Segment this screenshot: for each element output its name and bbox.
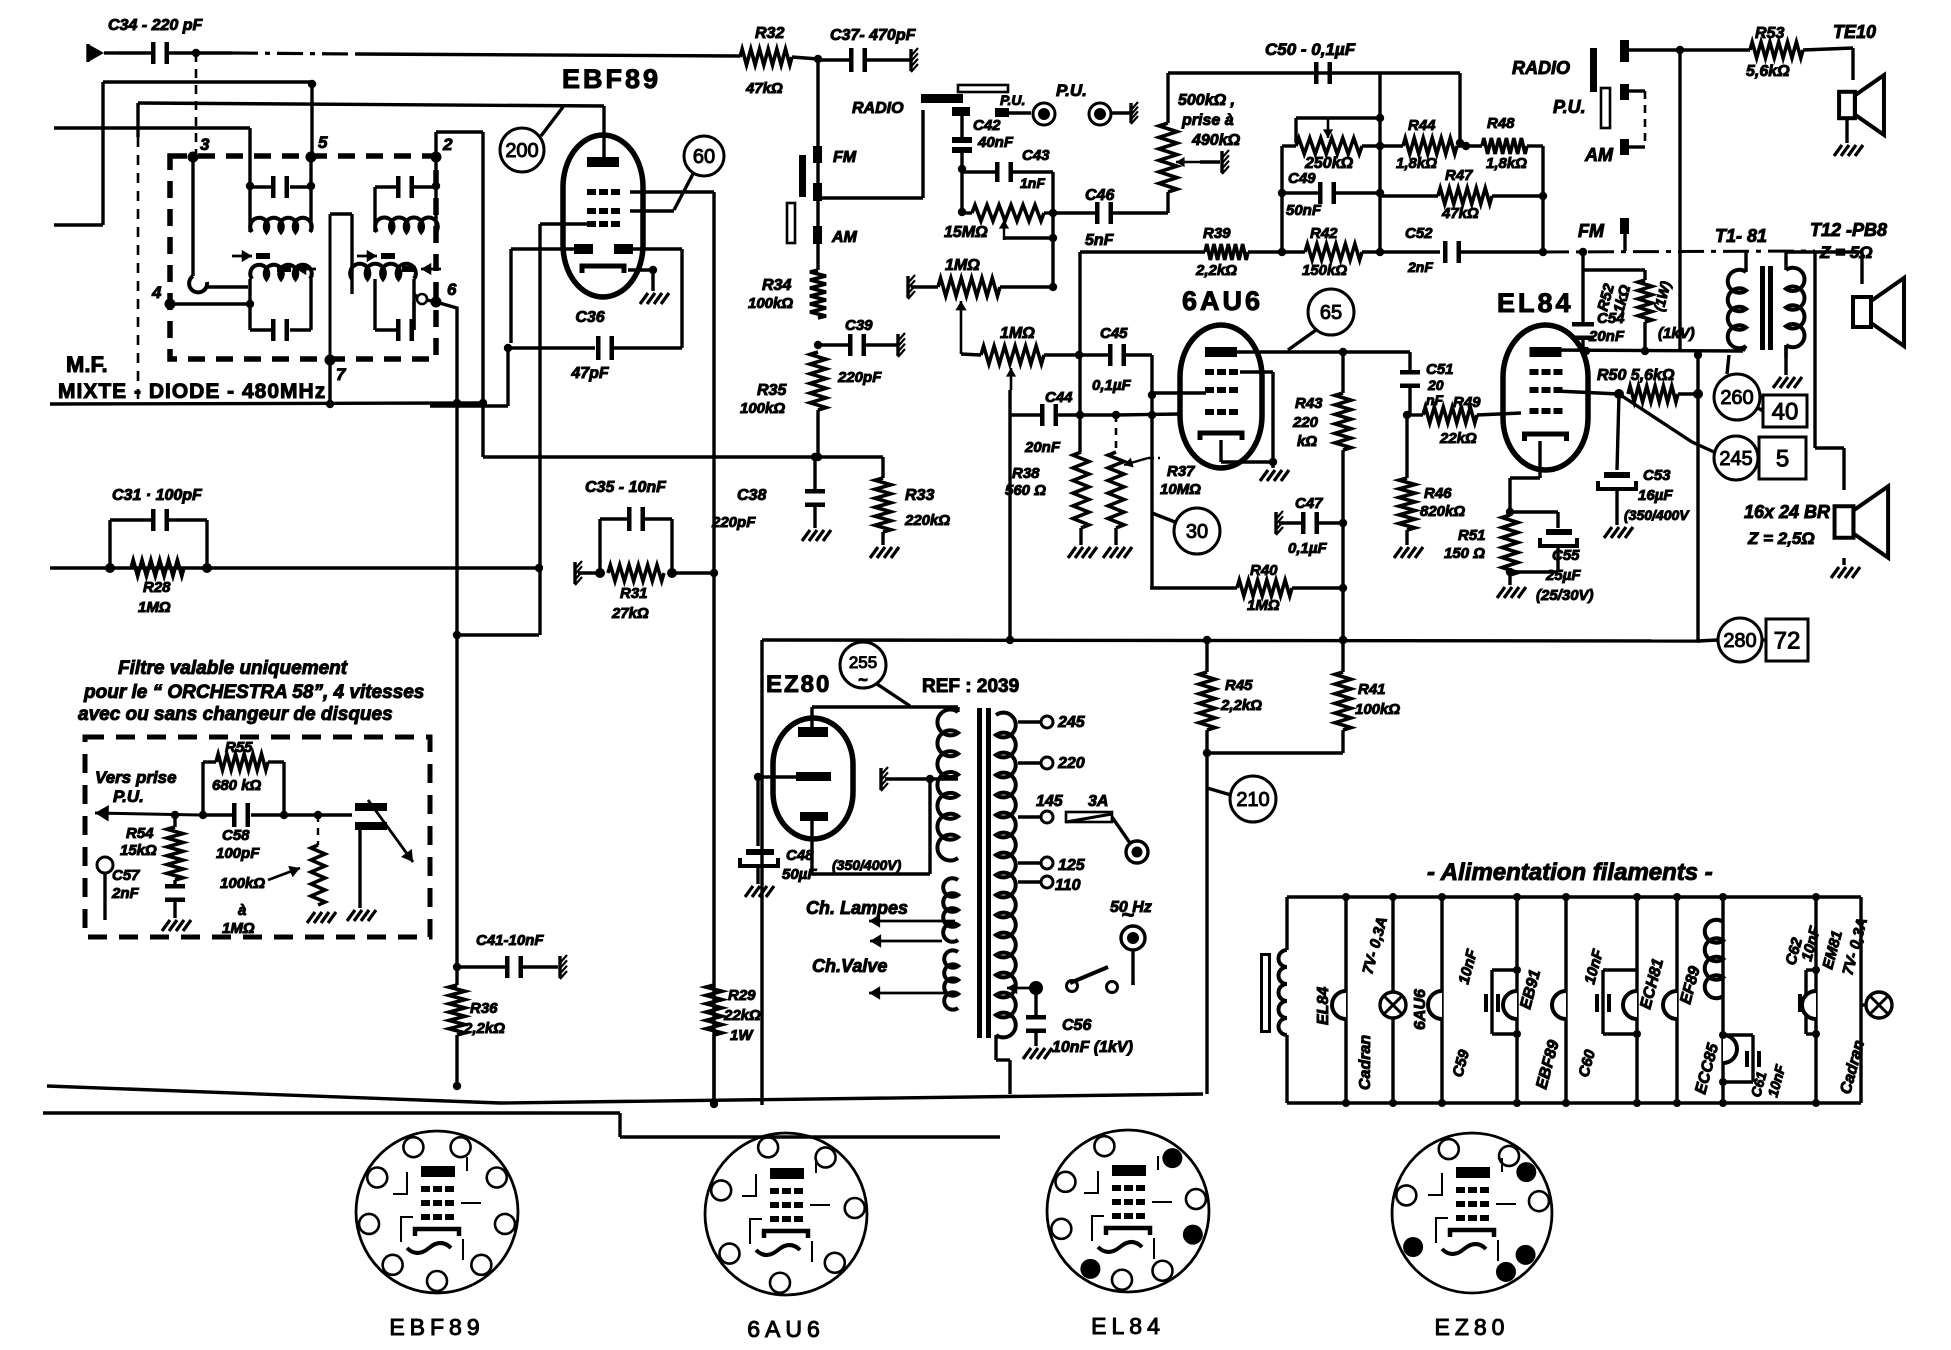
bus chassis: [47, 1086, 1203, 1103]
capacitor C37: [818, 48, 910, 72]
svg-text:EZ80: EZ80: [1435, 1314, 1510, 1340]
label P.U. 2: [1056, 81, 1087, 100]
resistor R46: [1399, 411, 1415, 545]
capacitor C43: [962, 162, 1053, 213]
label EZ80: [766, 671, 831, 698]
resistor R45: [1199, 640, 1262, 730]
capacitor C38: [805, 453, 825, 528]
label 100kΩ à 1MΩ: [220, 866, 300, 937]
filament line ECH81: [1623, 893, 1641, 1107]
pot 500k tap: [1176, 157, 1220, 167]
svg-text:T1- 81: T1- 81: [1715, 226, 1767, 246]
label C56 10nF 1kV: [1052, 1017, 1133, 1056]
bus lower: [43, 1113, 1000, 1137]
svg-text:R38: R38: [1012, 465, 1040, 482]
connector circle: [97, 857, 113, 920]
label M.F.: [66, 352, 108, 377]
label 500k prise: [1178, 92, 1241, 149]
svg-text:560 Ω: 560 Ω: [1005, 482, 1046, 499]
svg-text:Vers prise: Vers prise: [95, 768, 177, 787]
wire node5 riser: [54, 80, 316, 225]
svg-text:490kΩ: 490kΩ: [1191, 132, 1241, 149]
C41 stub: [560, 955, 567, 979]
callout 30: [1152, 508, 1220, 554]
transformer heater winding 1: [943, 878, 958, 942]
svg-text:C38: C38: [737, 487, 766, 504]
IF can1 capacitor bottom: [250, 279, 311, 341]
wire R32 out: [792, 55, 822, 63]
label fil 6AU6: [1412, 989, 1429, 1030]
label FM right: [1578, 221, 1605, 241]
svg-text:20nF: 20nF: [1588, 328, 1625, 345]
svg-text:3A: 3A: [1088, 793, 1108, 810]
transformer T1 primary: [1728, 252, 1746, 351]
label 6AU6: [1182, 286, 1263, 316]
svg-text:22kΩ: 22kΩ: [1439, 430, 1477, 447]
resistor R33: [875, 457, 891, 545]
svg-text:à: à: [238, 902, 246, 919]
label fil ECH81: [1637, 957, 1667, 1011]
wire node2 over-route: [436, 132, 487, 457]
capacitor C56: [1026, 984, 1046, 1046]
svg-text:R48: R48: [1487, 115, 1515, 132]
svg-text:C31 · 100pF: C31 · 100pF: [112, 487, 203, 504]
label fil EL84: [1315, 987, 1332, 1025]
C47 stub: [1276, 511, 1283, 535]
label C34 - 220 pF: [108, 17, 203, 34]
svg-text:TE10: TE10: [1833, 22, 1876, 42]
svg-text:110: 110: [1055, 877, 1081, 894]
bus B-minus left: [50, 403, 483, 404]
filament coil ECC85: [1705, 920, 1723, 998]
svg-text:R42: R42: [1310, 225, 1338, 242]
EBF89 grid2 lead: [630, 209, 674, 212]
capacitor C42: [952, 116, 972, 173]
ground C48: [745, 886, 774, 897]
box 40: [1763, 395, 1807, 427]
svg-text:6AU6: 6AU6: [1412, 989, 1429, 1030]
IF can2 secondary out: [414, 294, 436, 304]
resistor R54: [120, 815, 183, 880]
label TE10: [1833, 22, 1876, 42]
IF can2 coupling arrows: [357, 250, 441, 275]
jack stub: [1131, 102, 1138, 124]
svg-text:0,1µF: 0,1µF: [1092, 377, 1131, 394]
C39 node: [814, 341, 822, 349]
svg-text:(350/400V): (350/400V): [832, 857, 902, 873]
M.F. dashed box: [170, 156, 436, 359]
label R43 220k: [1292, 395, 1323, 450]
lamp cadran 1: [1380, 992, 1406, 1018]
svg-text:R39: R39: [1203, 225, 1231, 242]
label C53 16uF: [1624, 467, 1690, 523]
resistor R34: [748, 270, 826, 318]
capacitor C52: [1443, 241, 1543, 263]
svg-text:245: 245: [1719, 448, 1752, 470]
EZ80 stub right: [881, 767, 958, 791]
label fil cadran2: [1837, 1038, 1868, 1096]
EBF89 grid3 lead: [457, 224, 590, 635]
filtre PU arrow: [95, 805, 200, 821]
tap 145 fuse 3A: [1018, 793, 1130, 843]
socket diagram EBF89: [356, 1131, 518, 1340]
svg-text:1W: 1W: [730, 1027, 754, 1044]
svg-text:1MΩ: 1MΩ: [138, 599, 171, 616]
tap 125: [1018, 857, 1086, 874]
PU contact: [995, 92, 1031, 117]
svg-text:100pF: 100pF: [216, 845, 260, 862]
capacitor C47: [1279, 512, 1343, 534]
node 5: [306, 133, 329, 163]
label C35 - 10nF: [585, 479, 667, 496]
svg-text:REF : 2039: REF : 2039: [922, 676, 1019, 697]
svg-text:1nF: 1nF: [1020, 175, 1045, 191]
filament choke: [1279, 950, 1288, 1035]
node 4: [151, 283, 176, 310]
ground T1 secondary: [1773, 377, 1802, 388]
svg-text:P.U.: P.U.: [1553, 97, 1586, 117]
label R40 1M: [1247, 562, 1280, 614]
pot 250k tap loop: [1296, 114, 1384, 143]
svg-text:C39: C39: [845, 317, 873, 334]
svg-text:R50 5,6kΩ: R50 5,6kΩ: [1597, 367, 1675, 384]
resistor R53: [1680, 25, 1853, 80]
mains switch: [1007, 967, 1133, 994]
label C42 40nF: [973, 117, 1014, 151]
svg-text:R49: R49: [1453, 394, 1481, 411]
ground R51: [1497, 587, 1526, 598]
svg-text:Ch.Valve: Ch.Valve: [812, 956, 887, 976]
svg-text:C43: C43: [1022, 147, 1050, 164]
svg-text:15MΩ: 15MΩ: [944, 224, 988, 241]
label C60 10nF: [1575, 947, 1607, 1079]
svg-text:220kΩ: 220kΩ: [904, 512, 950, 529]
svg-text:5nF: 5nF: [1085, 232, 1115, 249]
label MIXTE-DIODE-480MHz: [58, 380, 326, 403]
label C46 5nF: [1085, 187, 1115, 249]
svg-text:47kΩ: 47kΩ: [745, 80, 783, 97]
svg-text:47kΩ: 47kΩ: [1441, 205, 1479, 222]
capacitor C50: [1314, 62, 1332, 84]
pot 250k: [1282, 138, 1403, 154]
label PU right: [1553, 97, 1586, 117]
label REF 2039: [922, 676, 1019, 697]
capacitor C57: [165, 880, 185, 918]
label R50 5,6k: [1597, 367, 1675, 384]
switch bar: [799, 155, 806, 197]
slot PU right: [1601, 88, 1610, 128]
pot 1M stub: [908, 275, 938, 299]
capacitor C31: [110, 509, 207, 568]
svg-text:C44: C44: [1045, 389, 1073, 406]
svg-text:16µF: 16µF: [1638, 487, 1673, 504]
RADIO small contact: [952, 107, 970, 116]
filament line EB91: [1503, 893, 1521, 1107]
filament line EF89: [1663, 893, 1681, 1107]
label T12-PB8: [1810, 220, 1887, 262]
svg-text:R31: R31: [620, 585, 648, 602]
svg-text:1,8kΩ: 1,8kΩ: [1396, 155, 1437, 172]
bus B+: [762, 636, 1700, 644]
svg-text:R55: R55: [225, 739, 253, 756]
svg-text:680 kΩ: 680 kΩ: [212, 777, 262, 794]
ground R37: [1103, 547, 1132, 558]
label fil EB91: [1517, 968, 1544, 1011]
wire 15M to pot1: [1049, 213, 1057, 291]
svg-text:C50 - 0,1µF: C50 - 0,1µF: [1265, 40, 1356, 59]
svg-text:210: 210: [1236, 789, 1269, 811]
svg-text:P.U.: P.U.: [1000, 92, 1025, 108]
label C51 20nF: [1426, 361, 1454, 408]
label C54 20nF 1kV: [1588, 310, 1695, 345]
pot 1M first: [938, 278, 1053, 296]
wire net left riser: [1278, 146, 1286, 256]
capacitor C60: [1595, 970, 1641, 1038]
wire R31 to grid line: [672, 569, 718, 577]
svg-text:50nF: 50nF: [1286, 202, 1322, 219]
socket diagram EZ80: [1392, 1133, 1552, 1340]
svg-text:125: 125: [1058, 857, 1086, 874]
svg-text:C53: C53: [1643, 467, 1671, 484]
FM lower contact: [813, 110, 923, 201]
transformer HV winding: [937, 707, 958, 861]
pot 15M: [958, 205, 1057, 221]
label C52 2nF: [1405, 225, 1433, 275]
RADIO plate: [852, 94, 963, 117]
pot 15M tap: [999, 220, 1057, 242]
EZ80 anode lead: [812, 707, 958, 727]
filtre dashed box: [85, 737, 430, 937]
speaker 16x24BR wire: [1815, 251, 1844, 490]
transformer core: [977, 708, 991, 1038]
resistor R51: [1502, 508, 1518, 585]
EL84 anode wire: [1545, 347, 1743, 359]
EBF89 anode lead: [602, 106, 605, 158]
label R52 rotated: [1594, 279, 1673, 315]
label fil EBF89: [1533, 1038, 1562, 1091]
svg-text:50 Hz: 50 Hz: [1110, 899, 1152, 916]
svg-text:150kΩ: 150kΩ: [1302, 262, 1347, 279]
svg-text:~: ~: [858, 672, 867, 689]
note filtre line1: [118, 658, 348, 679]
label C39 220pF: [837, 317, 882, 386]
resistor R44: [1396, 117, 1457, 172]
svg-text:220: 220: [1057, 755, 1085, 772]
resistor R47: [1380, 167, 1543, 222]
node6 AVC vertical: [436, 302, 461, 967]
svg-text:40: 40: [1772, 399, 1799, 426]
capacitor C55: [1510, 512, 1577, 572]
svg-text:C55: C55: [1552, 547, 1580, 564]
label R46 820k: [1420, 485, 1465, 520]
capacitor C59: [1484, 966, 1521, 1038]
ground TE10: [1834, 145, 1863, 156]
wire y103 to EBF89 anode: [138, 103, 604, 137]
label C61: [1747, 1063, 1788, 1099]
tube EBF89: [563, 135, 643, 297]
tube EZ80: [773, 718, 853, 839]
svg-text:EL84: EL84: [1091, 1313, 1165, 1339]
svg-text:R41: R41: [1358, 681, 1386, 698]
svg-text:2,2kΩ: 2,2kΩ: [1195, 262, 1237, 279]
tube 6AU6: [1180, 325, 1262, 468]
ground C57: [162, 920, 191, 931]
ground R46: [1394, 547, 1423, 558]
svg-text:C56: C56: [1062, 1017, 1091, 1034]
contact AM right: [1620, 91, 1645, 155]
IF can2 primary coil: [375, 217, 438, 232]
ground R38: [1068, 547, 1097, 558]
resistor R43: [1335, 352, 1351, 644]
wire R50 right riser: [1696, 355, 1699, 641]
svg-text:EL84: EL84: [1315, 987, 1332, 1025]
svg-text:0,1µF: 0,1µF: [1288, 540, 1327, 557]
svg-text:150 Ω: 150 Ω: [1444, 545, 1485, 562]
label C62 10nF: [1782, 924, 1824, 967]
svg-text:220pF: 220pF: [837, 369, 882, 386]
EBF89 grid1 lead: [630, 192, 714, 1104]
primary bottom: [996, 1035, 1010, 1094]
svg-text:1MΩ: 1MΩ: [1247, 597, 1280, 614]
svg-text:72: 72: [1774, 628, 1801, 655]
capacitor C61: [1719, 1031, 1761, 1086]
svg-text:Cadran: Cadran: [1357, 1035, 1374, 1090]
callout 60: [674, 136, 724, 210]
ground pot: [307, 912, 336, 923]
svg-text:C35 - 10nF: C35 - 10nF: [585, 479, 667, 496]
label R29 22kΩ 1W: [723, 987, 761, 1044]
svg-text:40nF: 40nF: [977, 134, 1014, 151]
svg-text:Ch. Lampes: Ch. Lampes: [806, 898, 908, 918]
callout 280: [1718, 618, 1766, 662]
label fil ECC85: [1692, 1041, 1722, 1096]
node7 drop to bus: [326, 360, 334, 408]
ground C38: [802, 530, 831, 541]
resistor R37: [1108, 452, 1124, 545]
label 250k: [1304, 155, 1354, 172]
capacitor C49: [1282, 182, 1384, 204]
label 1M first: [945, 257, 980, 274]
IF can1 primary coil: [250, 218, 311, 232]
filament line dial lamp: [1389, 893, 1397, 1107]
transformer T1 secondary: [1786, 252, 1862, 375]
svg-text:220pF: 220pF: [711, 514, 756, 531]
label C59 10nF: [1449, 947, 1481, 1079]
svg-text:R28: R28: [143, 579, 171, 596]
filtre switch: [355, 800, 413, 908]
wire T1 sec ground stub: [1784, 345, 1787, 358]
resistor R38: [1073, 452, 1089, 545]
capacitor C44: [1011, 404, 1180, 426]
svg-text:FM: FM: [1578, 221, 1605, 241]
socket fuse: [1126, 841, 1148, 863]
callout 210: [1207, 776, 1276, 822]
callout 65: [1288, 289, 1354, 350]
6AU6 grid leads: [1148, 393, 1206, 419]
capacitor C53: [1598, 394, 1636, 525]
socket diagram 6AU6: [705, 1133, 867, 1342]
resistor R39: [1195, 225, 1305, 279]
svg-text:100kΩ: 100kΩ: [220, 875, 265, 892]
label C41-10nF: [476, 932, 544, 949]
jack PU 1: [1033, 103, 1055, 125]
speaker 16x24BR: [1835, 486, 1889, 565]
C36 drop to bus: [430, 348, 508, 406]
resistor R41: [1335, 640, 1400, 730]
svg-text:47pF: 47pF: [570, 365, 610, 382]
capacitor C54: [1572, 252, 1645, 351]
svg-text:5: 5: [318, 133, 328, 152]
coil L1c small curl: [189, 276, 248, 292]
svg-text:R45: R45: [1225, 677, 1253, 694]
svg-text:C36: C36: [575, 309, 604, 326]
label vers prise PU: [95, 768, 177, 806]
svg-text:Z = 2,5Ω: Z = 2,5Ω: [1747, 529, 1815, 548]
filament line EBF89: [1552, 893, 1570, 1107]
EZ80 box: [760, 640, 763, 1101]
ground filtre switch: [347, 910, 376, 921]
ground 6AU6: [1260, 470, 1289, 481]
resistor R55: [203, 739, 284, 815]
resistor R32: [740, 25, 792, 97]
dashed gang line: [137, 137, 140, 400]
label C48 50uF: [782, 847, 902, 883]
callout 200: [500, 107, 563, 172]
contact radio right: [1620, 40, 1680, 62]
dial lamp bar: [1260, 953, 1271, 1033]
node 7: [325, 355, 348, 385]
svg-text:R32: R32: [755, 25, 784, 42]
svg-text:20nF: 20nF: [1024, 439, 1061, 456]
svg-text:C58: C58: [222, 827, 250, 844]
node 6: [431, 280, 458, 308]
label fil cadran1: [1357, 915, 1391, 1090]
svg-text:EL84: EL84: [1497, 288, 1574, 318]
wire TE10 riser: [1676, 46, 1684, 351]
svg-text:C41-10nF: C41-10nF: [476, 932, 544, 949]
svg-text:2,2kΩ: 2,2kΩ: [463, 1020, 505, 1037]
resistor R36: [449, 967, 465, 1090]
label R33 220kΩ: [904, 487, 950, 529]
label C36 47pF: [570, 309, 610, 382]
note filtre line3: [78, 704, 393, 725]
label EBF89: [562, 64, 661, 94]
svg-text:3: 3: [200, 135, 210, 154]
svg-text:- Alimentation filaments -: - Alimentation filaments -: [1427, 859, 1713, 886]
svg-text:C54: C54: [1597, 310, 1625, 327]
resistor R48: [1482, 115, 1543, 172]
svg-text:2nF: 2nF: [1407, 259, 1433, 275]
svg-text:RADIO: RADIO: [852, 100, 904, 117]
svg-text:AM: AM: [831, 229, 858, 246]
svg-text:R51: R51: [1458, 527, 1486, 544]
AM contact: [813, 226, 858, 246]
FM contact: [813, 146, 857, 166]
resistor R52: [1638, 270, 1652, 351]
svg-text:C42: C42: [973, 117, 1001, 134]
svg-text:R40: R40: [1250, 562, 1278, 579]
svg-text:EBF89: EBF89: [389, 1314, 484, 1340]
label C50: [1265, 40, 1356, 59]
svg-text:C51: C51: [1426, 361, 1454, 378]
label Ch Valve: [812, 956, 887, 976]
svg-text:R43: R43: [1295, 395, 1323, 412]
socket mains: [1121, 926, 1145, 985]
svg-text:C47: C47: [1295, 495, 1323, 512]
svg-text:(350/400V: (350/400V: [1624, 507, 1690, 523]
svg-text:100kΩ: 100kΩ: [748, 295, 793, 312]
label fil EF89: [1677, 965, 1703, 1006]
